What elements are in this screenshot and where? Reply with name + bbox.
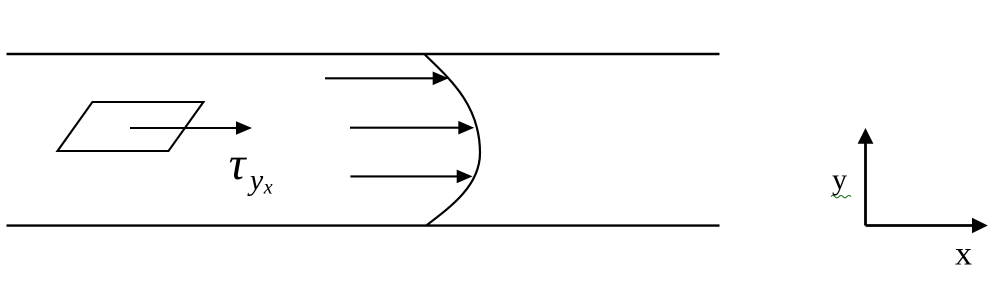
y axis arrowhead: [858, 128, 874, 144]
svg-text:y: y: [247, 164, 264, 197]
svg-text:x: x: [955, 236, 972, 273]
y axis shaft: [864, 143, 867, 226]
svg-text:τ: τ: [229, 138, 248, 190]
x axis shaft: [866, 224, 974, 227]
velocity arrow 2 (middle): [350, 121, 474, 135]
label tau_yx: [229, 138, 273, 199]
svg-text:x: x: [263, 177, 273, 199]
velocity arrow 1 (top): [325, 72, 449, 86]
bottom plate wall line: [7, 224, 720, 226]
green squiggle underline under y: [831, 195, 851, 197]
top plate wall line: [7, 53, 720, 55]
x axis arrowhead: [972, 218, 988, 234]
shear element parallelogram: [58, 102, 204, 151]
velocity arrow 3 (lower): [350, 170, 472, 184]
shear force arrow on element: [130, 121, 252, 135]
velocity profile curve: [424, 54, 480, 225]
svg-text:y: y: [832, 163, 847, 196]
